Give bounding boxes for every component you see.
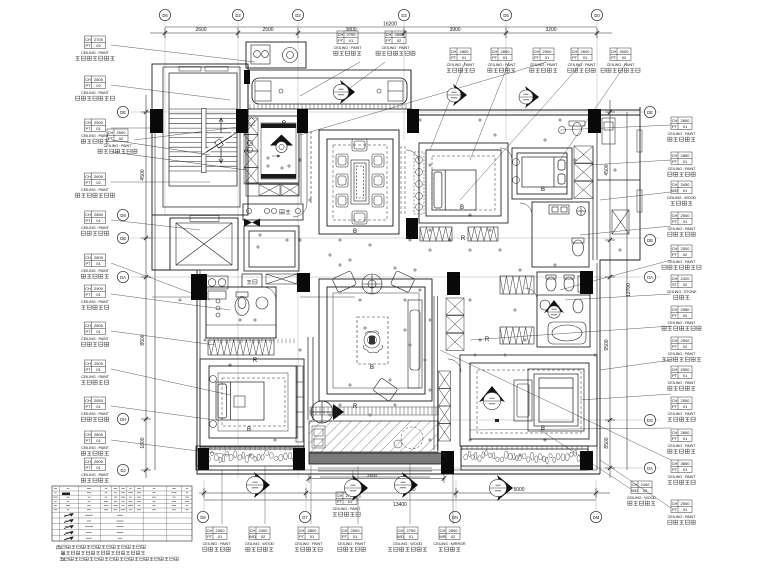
kitchen hob niche [246,42,306,68]
svg-text:3.: 3. [62,557,66,562]
svg-text:PT: PT [85,465,91,470]
svg-text:CEILING : PAINT: CEILING : PAINT [668,167,697,171]
svg-text:B: B [370,365,374,371]
grid bubble left DA [117,271,128,282]
svg-text:CH: CH [207,528,213,533]
svg-text:PT: PT [337,499,343,504]
svg-text:8500: 8500 [604,437,610,448]
svg-text:01: 01 [683,507,688,512]
svg-text:D7: D7 [302,515,308,520]
balcony rail dark bar [309,453,444,464]
svg-text:PT: PT [672,467,678,472]
right ceiling label CH2800 y429 [668,429,697,453]
svg-text:1800: 1800 [140,437,146,448]
svg-text:CH: CH [672,276,678,281]
stair arrows [219,118,223,133]
bed 1 [216,382,264,420]
svg-text:CEILING : PAINT: CEILING : PAINT [668,412,697,416]
wc fixtures [546,275,587,292]
left ceiling label CH2900 [81,285,110,309]
svg-text:DA: DA [647,275,653,280]
grid axis lines [130,21,660,511]
svg-text:CEILING : PAINT: CEILING : PAINT [338,542,367,546]
utility shaft 电井 [242,274,262,287]
stairwell [163,67,240,207]
svg-text:PT: PT [207,534,213,539]
svg-text:PT: PT [85,404,91,409]
svg-text:PT: PT [672,373,678,378]
legend table [52,486,192,541]
svg-text:DE: DE [647,110,653,115]
svg-text:2750: 2750 [407,528,417,533]
svg-text:2500: 2500 [262,27,273,33]
svg-text:01: 01 [409,534,414,539]
svg-text:PT: PT [85,438,91,443]
svg-text:DJ: DJ [120,468,125,473]
svg-text:2800: 2800 [94,323,104,328]
svg-text:02: 02 [96,180,101,185]
svg-text:CH: CH [611,49,617,54]
svg-text:CH: CH [386,32,392,37]
svg-text:CH: CH [632,482,638,487]
svg-text:CH: CH [85,432,91,437]
top ceiling label CH2500 x533 [530,48,559,72]
corridor kitchen-dining [301,131,311,203]
svg-text:2500: 2500 [94,120,104,125]
svg-text:CH: CH [85,459,91,464]
svg-text:2500: 2500 [681,398,691,403]
svg-text:CH: CH [672,430,678,435]
svg-text:01: 01 [683,467,688,472]
svg-text:D6: D6 [162,13,168,18]
bottom ceiling label CH2800 x439 [433,527,466,551]
svg-text:CH: CH [672,501,678,506]
svg-text:01: 01 [218,534,223,539]
kitchen diffuser [270,135,293,146]
left ceiling label CH2500 [81,119,110,143]
grid bubble right DE [644,106,655,117]
svg-text:01: 01 [96,329,101,334]
grid bubble right DG [644,414,655,425]
svg-text:B: B [541,426,545,432]
svg-text:WD: WD [397,534,404,539]
svg-text:3200: 3200 [545,27,556,33]
maid room [244,226,299,271]
svg-text:DA: DA [120,275,126,280]
left ceiling label CH2500 inset [98,129,137,153]
svg-text:PT: PT [299,534,305,539]
svg-text:5000: 5000 [513,487,524,493]
svg-text:2850: 2850 [681,153,691,158]
svg-text:CEILING : PAINT: CEILING : PAINT [81,51,110,55]
svg-text:PT: PT [338,38,344,43]
x-box closet hall [266,274,297,284]
svg-text:D3: D3 [401,13,407,18]
dark legend chip [62,493,70,496]
svg-text:2500: 2500 [681,501,691,506]
svg-text:CH: CH [85,174,91,179]
door arcs [263,148,537,372]
svg-text:CEILING : WOOD: CEILING : WOOD [393,542,423,546]
svg-text:PT: PT [672,344,678,349]
right ceiling label CH2800 y117 [668,117,697,141]
master bedroom [460,355,597,446]
svg-text:D0: D0 [594,13,600,18]
dining table [351,160,369,204]
svg-text:PT: PT [572,55,578,60]
svg-text:4500: 4500 [604,164,610,175]
svg-text:01: 01 [96,218,101,223]
bedroom 1 [200,359,304,447]
svg-text:PT: PT [85,292,91,297]
comb band below living [310,407,438,415]
svg-text:PT: PT [492,55,498,60]
svg-text:2420: 2420 [681,276,691,281]
svg-text:CH: CH [85,323,91,328]
svg-text:02: 02 [119,136,124,141]
left ceiling label CH2800 [76,76,115,100]
kitchen cabinets x-strip [244,118,258,135]
stair rail [202,109,207,173]
svg-text:PT: PT [672,159,678,164]
grid bubble bottom D8 [197,511,208,522]
svg-text:CH: CH [250,528,256,533]
svg-text:CEILING : PAINT: CEILING : PAINT [668,381,697,385]
top balcony band [248,70,411,109]
svg-text:PT: PT [611,55,617,60]
right ceiling label CH3850 y460 [668,460,697,484]
svg-text:2850: 2850 [94,212,104,217]
svg-text:12700: 12700 [626,283,632,297]
svg-text:2800: 2800 [449,528,459,533]
svg-text:2.: 2. [62,551,66,556]
stair treads [169,109,237,171]
svg-text:CH: CH [672,367,678,372]
bottom ceiling label CH2300 x206 [203,527,232,551]
center balcony hatched floor [309,421,438,452]
bottom ceiling label CH2400 x249 [245,527,275,551]
svg-text:WD: WD [631,488,638,493]
svg-text:CH: CH [108,130,114,135]
grid bubble left DH [117,413,128,424]
floor AC symbol [311,401,333,423]
svg-text:CEILING : PAINT: CEILING : PAINT [81,412,110,416]
grid bubble bottom D7 [299,511,310,522]
grid bubble left DB [117,232,128,243]
svg-text:01: 01 [96,292,101,297]
svg-text:D9: D9 [120,213,126,218]
grid bubble top D54 [500,9,511,20]
svg-text:CEILING : PAINT: CEILING : PAINT [530,63,559,67]
AC outdoor unit [612,210,629,234]
svg-text:CEILING : PAINT: CEILING : PAINT [81,188,110,192]
svg-text:D2: D2 [295,13,301,18]
svg-text:WD: WD [249,534,256,539]
svg-text:PT: PT [85,367,91,372]
grid bubble left DJ [117,464,128,475]
svg-text:DE: DE [120,110,126,115]
svg-text:01: 01 [96,261,101,266]
svg-text:2800: 2800 [94,255,104,260]
svg-text:PT: PT [342,534,348,539]
svg-text:CEILING : PAINT: CEILING : PAINT [81,269,110,273]
svg-text:01: 01 [683,159,688,164]
svg-text:CH: CH [85,37,91,42]
svg-text:2300: 2300 [216,528,226,533]
bottom ceiling label CH2800 x298 [295,527,324,551]
grid bubble right DB [644,234,655,245]
svg-text:2700: 2700 [94,37,104,42]
bottom dimension line [199,488,610,500]
bed 3 [522,157,567,187]
bed 2 [432,170,476,210]
right ceiling label CH2500 y212 [668,212,697,236]
svg-text:D2: D2 [235,13,241,18]
chandelier [363,331,382,353]
svg-text:CH: CH [672,213,678,218]
balcony dim line [309,474,444,483]
svg-text:CH: CH [672,398,678,403]
x-strip master wall [439,371,451,389]
bathroom mid-left [206,287,276,338]
top ceiling label CH2600 x571 [568,48,597,72]
svg-text:CH: CH [672,182,678,187]
svg-text:9500: 9500 [604,339,610,350]
stair lower landing [190,216,219,222]
wardrobe bedroom1 [208,340,274,355]
svg-text:01: 01 [545,55,550,60]
svg-text:CH: CH [534,49,540,54]
svg-text:02: 02 [683,313,688,318]
grid bubble top D60 [159,9,170,20]
svg-text:PT: PT [672,404,678,409]
svg-text:CH: CH [398,528,404,533]
corridor wall [308,337,313,420]
top wall right part [411,70,640,115]
svg-text:01: 01 [349,38,354,43]
svg-text:R: R [485,337,490,343]
svg-text:CEILING : PAINT: CEILING : PAINT [81,446,110,450]
grid bubble top D22 [292,9,303,20]
right ceiling label CH2500 y337 [662,337,701,361]
elevator shaft [170,218,238,270]
svg-text:CEILING : PAINT: CEILING : PAINT [668,475,697,479]
svg-text:CEILING : STONE: CEILING : STONE [667,290,697,294]
svg-text:CEILING : WOOD: CEILING : WOOD [667,196,697,200]
svg-text:B: B [541,187,545,193]
svg-text:D8: D8 [200,515,206,520]
svg-text:CEILING : PAINT: CEILING : PAINT [334,46,363,50]
svg-text:CH: CH [672,307,678,312]
grid bubble left DE [117,106,128,117]
svg-text:02: 02 [683,344,688,349]
svg-text:D5: D5 [503,13,509,18]
svg-text:CH: CH [672,461,678,466]
svg-text:B: B [460,205,464,211]
svg-text:CH: CH [85,398,91,403]
grid bubble top D21 [232,9,243,20]
svg-text:PT: PT [672,124,678,129]
master AC diamond [479,386,505,402]
svg-text:R: R [282,121,287,127]
svg-text:PT: PT [672,507,678,512]
left ceiling label CH2800 [81,322,110,346]
svg-text:CEILING : WOOD: CEILING : WOOD [627,496,657,500]
svg-text:CEILING : PAINT: CEILING : PAINT [668,515,697,519]
svg-text:CEILING : PAINT: CEILING : PAINT [333,507,362,511]
right ceiling label CH2550 y306 [662,306,701,330]
svg-text:CEILING : PAINT: CEILING : PAINT [668,444,697,448]
svg-text:CH: CH [672,153,678,158]
svg-text:01: 01 [96,465,101,470]
svg-text:16200: 16200 [383,22,397,28]
svg-text:2500: 2500 [94,361,104,366]
svg-text:CEILING : PAINT: CEILING : PAINT [81,473,110,477]
svg-text:13400: 13400 [393,502,407,508]
hallway ceiling dots [178,118,622,457]
svg-text:DH: DH [120,417,126,422]
svg-text:CEILING : PAINT: CEILING : PAINT [81,134,110,138]
right ceiling label CH2400 inset [627,481,657,505]
svg-text:B: B [247,427,251,433]
svg-text:01: 01 [583,55,588,60]
bottom ceiling label CH2750 x397 [388,527,427,551]
water shaft 水井 [243,204,303,220]
top ceiling label CH3000 x610 [601,48,640,72]
svg-text:CEILING : PAINT: CEILING : PAINT [668,260,697,264]
wall tick details [200,339,582,451]
svg-text:01: 01 [683,188,688,193]
svg-text:2800: 2800 [308,528,318,533]
kitchen hob circles [247,118,255,153]
right ceiling label CH2850 y152 [668,152,697,176]
leader lines [111,45,671,524]
svg-text:CH: CH [672,246,678,251]
svg-text:CEILING : WOOD: CEILING : WOOD [245,542,275,546]
svg-text:CEILING : PAINT: CEILING : PAINT [81,337,110,341]
svg-text:B: B [353,229,357,235]
svg-text:01: 01 [96,126,101,131]
svg-text:PT: PT [386,38,392,43]
svg-text:CEILING : PAINT: CEILING : PAINT [382,46,411,50]
svg-text:R: R [461,236,466,242]
bedroom 2 [419,143,508,223]
svg-text:2500: 2500 [543,49,553,54]
top dimension line [150,28,612,38]
svg-text:ST: ST [672,282,678,287]
svg-text:02: 02 [451,534,456,539]
top ceiling label CH2800 above band [376,31,415,55]
svg-text:2400: 2400 [641,482,651,487]
svg-text:01: 01 [96,367,101,372]
svg-text:DM: DM [593,515,600,520]
wardrobe bedroom3 (x-boxes) [574,146,593,163]
svg-text:2800: 2800 [681,430,691,435]
top ceiling label CH2850 x491 [488,48,517,72]
right ceiling label CH3450 y181 [667,181,697,205]
svg-text:WD: WD [671,188,678,193]
master bathroom [537,272,590,347]
svg-text:01: 01 [462,55,467,60]
left ceiling label CH2850 [81,211,110,235]
sofa group [332,271,356,293]
svg-text:3900: 3900 [449,27,460,33]
svg-text:02: 02 [261,534,266,539]
left ceiling label CH2600 [81,458,110,482]
svg-text:CEILING : MIRROR: CEILING : MIRROR [433,542,466,546]
svg-text:01: 01 [310,534,315,539]
ceiling fan living [362,274,382,294]
svg-text:CEILING : PAINT: CEILING : PAINT [81,375,110,379]
svg-text:01: 01 [353,534,358,539]
svg-text:4500: 4500 [140,169,146,180]
svg-text:01: 01 [503,55,508,60]
svg-text:2600: 2600 [94,459,104,464]
grid bubble top D33 [398,9,409,20]
svg-text:DA: DA [647,466,653,471]
grid bubble bottom DM [590,511,601,522]
kitchen ceiling coffer [261,123,296,179]
svg-text:2800: 2800 [395,32,405,37]
svg-text:PT: PT [672,252,678,257]
right side rooms [593,112,640,260]
svg-text:PT: PT [108,136,114,141]
bedroom 3 [512,148,572,199]
svg-text:CH: CH [672,118,678,123]
kitchen [246,116,299,183]
right dimension line [605,100,627,478]
svg-text:2900: 2900 [94,286,104,291]
kitchen counter band [246,184,299,196]
svg-text:2800: 2800 [681,118,691,123]
svg-text:2600: 2600 [367,473,378,478]
svg-text:2500: 2500 [681,213,691,218]
right ceiling label CH2500 y397 [668,397,697,421]
svg-text:CH: CH [672,338,678,343]
bedroom2 hanger closet [414,152,424,214]
svg-text:02: 02 [96,43,101,48]
svg-text:CEILING : PAINT: CEILING : PAINT [668,352,697,356]
svg-text:CEILING : PAINT: CEILING : PAINT [203,542,232,546]
corridor dining-bedroom2 [401,146,405,216]
svg-text:CEILING : PAINT: CEILING : PAINT [447,63,476,67]
svg-text:02: 02 [96,83,101,88]
band end cabinets [255,81,403,101]
svg-text:CEILING : PAINT: CEILING : PAINT [668,321,697,325]
outer walls [152,64,640,474]
svg-text:CH: CH [85,286,91,291]
stair break line [204,134,234,153]
svg-text:02: 02 [622,55,627,60]
svg-text:01: 01 [96,438,101,443]
right ceiling label CH2420 y275 [667,275,697,299]
svg-text:2400: 2400 [259,528,269,533]
svg-text:2600: 2600 [195,27,206,33]
svg-text:CH: CH [85,77,91,82]
top ceiling label CH2700 above band [334,31,363,55]
svg-text:02: 02 [683,282,688,287]
svg-text:PT: PT [85,329,91,334]
right wall windows [637,130,642,212]
svg-text:CH: CH [440,528,446,533]
svg-text:2850: 2850 [501,49,511,54]
left ceiling label CH2600 [76,173,115,197]
band diffuser [340,80,355,104]
svg-text:3000: 3000 [620,49,630,54]
left ceiling label CH2700 [76,36,115,60]
balcony master (stone) [461,449,588,466]
bottom ceiling label CH2700 mid [333,492,362,516]
